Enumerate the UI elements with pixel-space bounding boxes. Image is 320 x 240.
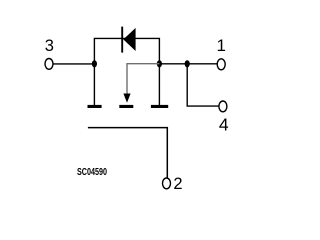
- node A junction dot: [92, 60, 97, 67]
- wire node C to pin 4: [187, 64, 218, 106]
- wire drain vertical: [158, 64, 160, 106]
- svg-text:4: 4: [219, 114, 229, 134]
- terminal pin 3: [45, 59, 53, 70]
- substrate arrowhead: [123, 94, 130, 103]
- terminal pin 4: [219, 101, 227, 112]
- wire source vertical: [93, 64, 95, 106]
- node B junction dot: [157, 60, 162, 67]
- wire top diode branch: [94, 38, 159, 63]
- wire pin3 to node A: [53, 63, 93, 65]
- wire node B to pin 1: [159, 63, 217, 65]
- substrate wire (grey): [127, 64, 159, 95]
- terminal pin 1: [217, 59, 225, 70]
- node C junction dot: [185, 60, 190, 67]
- gate electrode line and wire to pin 2: [88, 128, 167, 179]
- svg-text:SC04590: SC04590: [77, 167, 107, 178]
- bulk electrode bar: [119, 105, 133, 108]
- terminal pin 2: [163, 178, 171, 189]
- svg-text:1: 1: [216, 36, 225, 55]
- diode D1 cathode bar: [121, 27, 123, 53]
- drain electrode bar: [151, 105, 168, 108]
- svg-text:3: 3: [45, 37, 54, 55]
- svg-text:2: 2: [173, 175, 182, 193]
- diode D1 triangle: [123, 28, 135, 51]
- source electrode bar: [88, 105, 102, 108]
